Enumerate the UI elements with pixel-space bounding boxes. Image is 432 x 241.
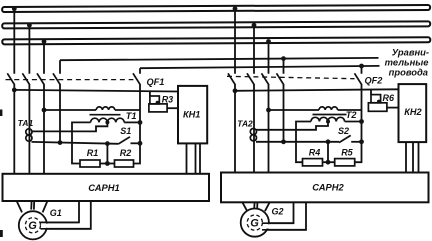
wire: phase B drop (gen 1) (28, 25, 30, 174)
node N2: tap / R4R5 riser junction (326, 139, 331, 144)
scan artifact: left margin mark 1 (0, 110, 2, 117)
svg-text:провода: провода (389, 66, 428, 77)
breaker QF1 pole B blade (22, 73, 29, 85)
breaker QF2 pole 4 blade (277, 73, 284, 85)
bus bar L1 (2, 5, 430, 12)
relay KH1 box (178, 86, 207, 143)
resistor R5 (335, 159, 355, 166)
breaker QF2 pole B blade (247, 73, 254, 85)
wire: T2 secondary right lead (345, 121, 362, 123)
bus bar L2 (2, 21, 430, 28)
breaker QF2 pole 5 blade (355, 73, 362, 85)
regulator box SARN2 (221, 173, 429, 203)
wire: riser N1 to R1-R2 junction (106, 144, 108, 164)
transformer T2 secondary winding (311, 117, 345, 121)
svg-text:САРН2: САРН2 (312, 181, 344, 192)
generator G1 (19, 211, 47, 239)
svg-text:Т1: Т1 (126, 111, 137, 121)
transformer T2 core (313, 114, 347, 116)
breaker QF1 linkage (dashed) (6, 79, 134, 81)
wire: phase C drop (gen 2) (268, 42, 270, 174)
breaker QF2 linkage (dashed) (227, 76, 355, 78)
breaker QF2 pole C blade (262, 73, 269, 85)
transformer T1 secondary winding (91, 118, 125, 122)
resistor R1 (80, 160, 100, 167)
node: equalizing tap 2 / TA2 wire junction (281, 139, 286, 144)
wire: phase A drop (gen 2) (234, 9, 236, 173)
wire: QF2 pole 5 branch (equalizing wire 2 to R5) (355, 66, 362, 162)
svg-text:ТА1: ТА1 (18, 118, 34, 128)
wire: T1 secondary left lead to R1 (72, 122, 91, 163)
transformer T1 core (90, 114, 121, 116)
svg-text:G1: G1 (50, 208, 62, 218)
node: phase C2 / bus L3 junction (266, 39, 271, 44)
node: T1 secondary centre tap (105, 120, 109, 124)
svg-text:S1: S1 (120, 126, 131, 136)
node: phase A / relay wire junction (12, 88, 17, 93)
wire: TA2 lower secondary to S2 (256, 141, 339, 143)
wire: relay sensing wire W1 to KH1 (14, 90, 178, 92)
wire: equalizing wire 2 (140, 66, 380, 68)
wire: TA2 upper secondary to T2 centre tap (256, 122, 328, 130)
svg-text:САРН1: САРН1 (88, 182, 120, 193)
switch S2 blade (339, 135, 351, 142)
breaker QF1 pole A blade (7, 73, 14, 85)
wire: R4 to R5 (323, 161, 335, 163)
wire: G2 slip-ring slot (262, 224, 271, 228)
wire: S1 right terminal (131, 142, 141, 144)
svg-text:R1: R1 (87, 148, 99, 158)
wire: SARN2 feedback leads to G2 (262, 202, 306, 230)
current transformer TA2 (250, 129, 256, 141)
svg-text:ТА2: ТА2 (237, 118, 253, 128)
svg-text:R5: R5 (341, 147, 353, 157)
wire: SARN1 to G1 field leads (17, 202, 47, 213)
svg-text:QF2: QF2 (365, 75, 384, 85)
transformer T1 primary winding (96, 107, 115, 110)
node: phase C / T1 primary junction (42, 108, 47, 113)
relay KH2 box (399, 84, 427, 142)
node: R4-R5 junction (326, 160, 331, 165)
wire: equalizing wire 1 (60, 58, 379, 60)
wire: S2 right terminal (351, 141, 361, 143)
svg-text:R6: R6 (383, 93, 395, 103)
node: equalizing wire 1 / QF2 pole 4 junction (281, 56, 286, 61)
svg-text:QF1: QF1 (147, 77, 165, 87)
svg-text:G2: G2 (272, 206, 284, 216)
svg-text:R4: R4 (309, 147, 321, 157)
svg-text:R2: R2 (120, 148, 132, 158)
svg-text:КН2: КН2 (404, 107, 422, 117)
wire: phase A drop (gen 1) (13, 9, 15, 174)
wire: T2 primary leads (269, 109, 362, 111)
current transformer TA1 (26, 129, 32, 141)
node: equalizing wire 2 / QF2 pole5 junction (359, 64, 364, 69)
generator G2 (241, 209, 269, 237)
wire: equalizing tap 1 through QF1 pole 4 (59, 60, 61, 142)
wire: equalizing tap / QF2 pole 4 (283, 59, 285, 142)
wire: T2 secondary left lead to R4 (296, 122, 311, 163)
node: equalizing tap 1 / TA1 wire junction (58, 140, 63, 145)
node: S1 / QF1 pole5 junction (138, 141, 143, 146)
generator G1 rotor (dashed) (25, 218, 40, 233)
breaker QF1 pole C blade (37, 73, 44, 85)
resistor R4 (303, 159, 323, 166)
node: T2 secondary centre tap (326, 120, 330, 124)
scan artifact: left margin mark 2 (0, 230, 3, 237)
rheostat R3 (149, 91, 178, 112)
regulator box SARN1 (3, 174, 210, 201)
wire: KH2 output pins (406, 142, 419, 173)
wire: TA1 upper secondary to T1 centre tap (32, 122, 108, 131)
svg-text:G: G (28, 220, 37, 232)
resistor R2 (115, 160, 134, 167)
rheostat R6 (368, 90, 398, 112)
wire: phase B drop (gen 2) (253, 25, 255, 173)
wire: T1 secondary right lead (124, 121, 140, 123)
transformer T2 primary winding (319, 107, 338, 110)
node: R1-R2 junction (105, 161, 110, 166)
wire: G1 slip-ring slot (41, 224, 50, 228)
svg-text:G: G (250, 217, 259, 229)
node: phase C2 / T2 primary junction (266, 108, 271, 113)
breaker QF1 pole 4 blade (53, 73, 60, 85)
generator G2 rotor (dashed) (247, 215, 262, 230)
breaker QF2 pole A blade (228, 73, 235, 85)
node: phase C / bus L3 junction (42, 39, 47, 44)
node: phase A2 / bus L1 junction (233, 6, 238, 11)
node: phase B / bus L2 junction (27, 23, 32, 28)
wire: riser N2 to R4-R5 junction (327, 142, 329, 162)
svg-text:R3: R3 (162, 94, 174, 104)
node: phase A / bus L1 junction (12, 6, 17, 11)
wire: TA1 lower secondary to S1 (32, 142, 119, 144)
wire: SARN1 feedback leads to G1 (41, 201, 91, 229)
wire: phase C drop (gen 1) (43, 42, 45, 175)
bus bar L3 (2, 37, 430, 44)
wire: relay sensing wire W2 to KH2 (235, 89, 399, 91)
wire: R1 to R2 (100, 163, 115, 165)
wire: T1 primary leads (44, 109, 140, 111)
switch S1 blade (118, 137, 130, 144)
label: equalizing wires text (385, 47, 429, 78)
svg-text:КН1: КН1 (183, 110, 200, 120)
wire: SARN2 to G2 field leads (242, 202, 269, 211)
svg-text:S2: S2 (338, 126, 349, 136)
node: phase B2 / bus L2 junction (252, 23, 257, 28)
breaker QF1 pole 5 blade (133, 73, 140, 85)
wire: KH1 output pins (187, 143, 201, 174)
node N1: tap / R1R2 riser junction (105, 141, 110, 146)
node: phase A2 / relay wire junction (233, 88, 238, 93)
node: S2 / QF2 pole5 junction (359, 139, 364, 144)
node: T2 secondary right / QF2 pole5 junction (359, 119, 364, 124)
wire: QF1 pole 5 branch (equalizing wire 2 to R2) (134, 68, 141, 163)
svg-text:Т2: Т2 (346, 110, 358, 120)
node: T1 secondary right / QF1 pole5 junction (138, 120, 143, 125)
